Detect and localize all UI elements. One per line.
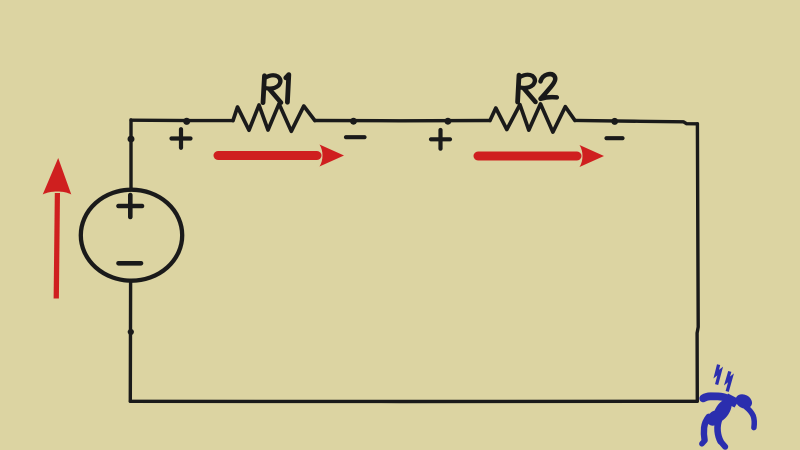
wire top-left segment — [131, 118, 233, 122]
red arrow left (current direction up) — [43, 158, 72, 299]
electrocuted person icon — [716, 365, 731, 392]
plus sign at R2 left — [431, 130, 450, 149]
wire bottom — [130, 400, 697, 404]
person torso — [710, 396, 736, 425]
junction dot left of R2 — [444, 118, 451, 125]
red arrow under R1 — [214, 145, 345, 167]
person right foot — [721, 442, 725, 447]
person neck — [724, 394, 740, 408]
wire left upper — [129, 120, 132, 189]
junction dot left upper — [128, 136, 135, 143]
person hips — [704, 407, 725, 428]
minus sign at R2 right — [607, 136, 623, 140]
plus sign at R1 left — [172, 129, 191, 148]
red arrow under R2 — [474, 145, 605, 167]
lightning bolt left stroke — [716, 365, 720, 385]
lightning bolt right stroke — [727, 371, 731, 391]
junction dot top wire left — [183, 118, 190, 125]
wire right side — [697, 124, 698, 401]
wire R2 to top-right corner — [575, 120, 698, 123]
wire between R1 and R2 — [315, 119, 490, 123]
label R1 — [263, 75, 289, 103]
person left arm — [703, 396, 726, 398]
person left foot — [702, 441, 705, 444]
resistor R1 — [233, 104, 315, 132]
person right arm — [746, 407, 754, 428]
junction dot below source — [128, 329, 134, 335]
minus sign at R1 right — [346, 135, 365, 139]
voltage source V1 circle — [81, 190, 182, 281]
label R2 — [518, 74, 557, 102]
person head — [733, 391, 754, 411]
resistor R2 — [490, 104, 575, 132]
wire left lower — [129, 283, 133, 401]
voltage source minus — [119, 261, 142, 266]
junction dot right of R2 — [611, 118, 618, 125]
person left leg — [704, 417, 709, 440]
person right leg — [717, 419, 720, 442]
junction dot right of R1 — [350, 118, 357, 125]
voltage source plus — [119, 195, 143, 217]
